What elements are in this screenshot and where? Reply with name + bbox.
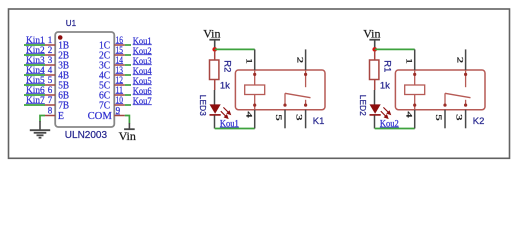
relay pin 4 lead: [254, 110, 256, 129]
svg-text:R1: R1: [382, 60, 393, 72]
relay pin 5 lead: [284, 110, 286, 129]
relay coil: [405, 70, 425, 110]
svg-text:K2: K2: [473, 116, 485, 127]
relay pin 3 lead: [465, 110, 467, 129]
pin 4 lead: [45, 74, 55, 76]
pin 11 lead: [114, 94, 125, 96]
svg-text:3: 3: [295, 114, 304, 120]
resistor R2 1k: [210, 51, 219, 90]
relay pin 1 lead: [254, 49, 256, 70]
IC U1 ULN2003 body: [55, 32, 114, 127]
svg-text:ULN2003: ULN2003: [65, 130, 108, 141]
pin 8 lead: [45, 115, 55, 117]
wire Kin4: [24, 74, 45, 76]
junction dot Vin node: [372, 47, 377, 52]
svg-text:1: 1: [48, 35, 53, 45]
wire Kin2: [24, 54, 45, 56]
svg-text:K1: K1: [313, 116, 325, 127]
relay pin 5 lead: [444, 110, 446, 129]
relay contact: [445, 70, 471, 105]
svg-text:Vin: Vin: [119, 129, 136, 143]
svg-text:5: 5: [48, 75, 53, 85]
svg-text:COM: COM: [88, 111, 112, 122]
svg-text:Kin2: Kin2: [26, 46, 45, 56]
ground symbol: [30, 121, 50, 138]
wire pin9 to Vin: [125, 116, 130, 124]
svg-text:Kin1: Kin1: [26, 36, 45, 46]
svg-text:E: E: [58, 111, 64, 122]
LED LED2: [370, 90, 391, 129]
svg-text:4: 4: [48, 65, 53, 75]
pin 12 lead: [114, 84, 125, 86]
svg-text:Kin4: Kin4: [26, 66, 45, 76]
wire Kou5: [125, 84, 131, 86]
pin 6 lead: [45, 94, 55, 96]
svg-text:4: 4: [245, 111, 254, 117]
svg-text:Kou1: Kou1: [133, 37, 152, 47]
wire Kin7: [24, 104, 45, 106]
coil terminal dots: [253, 73, 256, 76]
wire LED cathode to relay pin 4: [375, 128, 415, 130]
contact terminal dots: [464, 73, 467, 76]
contact terminal dots: [304, 73, 307, 76]
relay pin 1 lead: [414, 49, 416, 70]
svg-text:Kin5: Kin5: [26, 76, 45, 86]
wire Kou7: [125, 104, 131, 106]
svg-text:5: 5: [434, 114, 443, 120]
wire Vin to relay coil pin 1: [215, 48, 255, 50]
wire Kin6: [24, 94, 45, 96]
wire pin8 to ground: [40, 116, 45, 122]
svg-text:1: 1: [405, 58, 414, 64]
pin 9 lead: [114, 115, 125, 117]
svg-text:2: 2: [456, 57, 465, 63]
svg-text:Kin6: Kin6: [26, 86, 45, 96]
wire Kou1: [125, 44, 131, 46]
svg-text:5: 5: [274, 114, 283, 120]
relay K1 body: [235, 70, 325, 110]
svg-text:Kou4: Kou4: [133, 67, 152, 77]
wire Kin3: [24, 64, 45, 66]
pin 7 lead: [45, 104, 55, 106]
pin 13 lead: [114, 74, 125, 76]
svg-text:8: 8: [48, 106, 53, 116]
svg-text:LED2: LED2: [358, 95, 368, 117]
pin 16 lead: [114, 44, 125, 46]
svg-text:2: 2: [296, 57, 305, 63]
svg-text:1k: 1k: [220, 80, 230, 91]
pin 15 lead: [114, 54, 125, 56]
svg-text:Vin: Vin: [203, 26, 220, 40]
wire Vin to relay coil pin 1: [375, 48, 415, 50]
relay pin 2 lead: [465, 49, 467, 70]
relay pin 4 lead: [414, 110, 416, 129]
svg-text:U1: U1: [66, 19, 77, 28]
wire Kin5: [24, 84, 45, 86]
svg-text:Kou2: Kou2: [133, 47, 152, 57]
svg-text:Kou5: Kou5: [133, 77, 152, 87]
svg-text:1k: 1k: [380, 80, 390, 91]
svg-text:7C: 7C: [99, 100, 111, 111]
pin 5 lead: [45, 84, 55, 86]
pin 1 lead: [45, 44, 55, 46]
wire LED cathode to relay pin 4: [215, 128, 255, 130]
svg-text:R2: R2: [222, 60, 233, 72]
svg-text:7: 7: [48, 95, 53, 105]
junction dot Vin node: [212, 47, 217, 52]
svg-text:3: 3: [48, 55, 53, 65]
svg-text:4: 4: [405, 111, 414, 117]
coil terminal dots: [413, 73, 416, 76]
power port Vin (IC supply): [124, 123, 135, 129]
svg-text:Kou7: Kou7: [133, 97, 152, 107]
pin 1 orientation dot: [58, 35, 63, 40]
relay contact: [285, 70, 311, 105]
pin 3 lead: [45, 64, 55, 66]
wire Kou6: [125, 94, 131, 96]
sheet border: [9, 9, 510, 158]
pin 2 lead: [45, 54, 55, 56]
relay K2 body: [395, 70, 485, 110]
svg-text:Vin: Vin: [363, 26, 380, 40]
wire Kin1: [24, 44, 45, 46]
wire Kou3: [125, 64, 131, 66]
svg-text:Kin7: Kin7: [26, 96, 45, 106]
svg-text:3: 3: [455, 114, 464, 120]
svg-text:6: 6: [48, 85, 53, 95]
svg-text:1: 1: [245, 58, 254, 64]
relay coil: [245, 70, 265, 110]
LED LED3: [210, 90, 231, 129]
svg-text:LED3: LED3: [198, 95, 208, 117]
svg-text:Kin3: Kin3: [26, 56, 45, 66]
svg-text:Kou6: Kou6: [133, 87, 152, 97]
svg-text:2: 2: [48, 45, 53, 55]
svg-text:7B: 7B: [58, 100, 69, 111]
resistor R1 1k: [370, 51, 379, 90]
pin 10 lead: [114, 104, 125, 106]
wire Kou2: [125, 54, 131, 56]
relay pin 2 lead: [305, 49, 307, 70]
svg-text:Kou3: Kou3: [133, 57, 152, 67]
wire Kou4: [125, 74, 131, 76]
pin 14 lead: [114, 64, 125, 66]
relay pin 3 lead: [305, 110, 307, 129]
